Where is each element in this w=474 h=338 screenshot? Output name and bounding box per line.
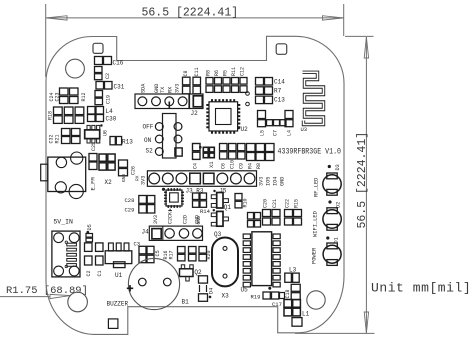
svg-text:C1: C1 bbox=[97, 270, 103, 276]
svg-text:C26: C26 bbox=[131, 166, 137, 175]
svg-text:C2: C2 bbox=[86, 270, 92, 276]
svg-text:C4: C4 bbox=[193, 163, 199, 169]
wire right dimension extension line top bbox=[345, 35, 374, 37]
mounting hole top-left bbox=[66, 59, 85, 78]
svg-text:C13: C13 bbox=[274, 97, 285, 104]
label Q3 bbox=[214, 231, 222, 238]
svg-text:B1: B1 bbox=[182, 299, 190, 306]
svg-text:D3: D3 bbox=[335, 164, 341, 170]
svg-text:GND: GND bbox=[195, 215, 201, 224]
svg-text:J4: J4 bbox=[142, 229, 150, 236]
svg-text:S2: S2 bbox=[146, 148, 154, 155]
via pair near U2 bbox=[246, 92, 250, 106]
crystal X1 bbox=[199, 146, 214, 158]
capacitor C32 resistor R21 cluster bbox=[49, 129, 81, 144]
right dimension text 56.5 [2224.41] bbox=[356, 132, 369, 229]
mounting hole bottom-left bbox=[68, 292, 88, 312]
svg-text:IO4: IO4 bbox=[273, 177, 279, 186]
svg-text:56.5 [2224.41]: 56.5 [2224.41] bbox=[356, 132, 369, 229]
connector J4 bbox=[142, 226, 203, 240]
svg-text:R19: R19 bbox=[251, 294, 261, 301]
svg-text:R8: R8 bbox=[206, 70, 212, 76]
top dimension arrow right bbox=[323, 16, 344, 20]
svg-text:D4: D4 bbox=[209, 288, 215, 294]
capacitor C2 C1 cluster bbox=[85, 243, 104, 277]
regulator U1 bbox=[105, 243, 132, 279]
svg-text:C2D: C2D bbox=[183, 215, 189, 224]
label J5 bbox=[219, 188, 227, 195]
capacitor C17 L1 cluster bbox=[272, 300, 310, 318]
svg-text:C31: C31 bbox=[114, 84, 125, 91]
board title text 4339RFBR3GE V1.0 bbox=[278, 147, 342, 156]
mounting hole bottom-right bbox=[307, 291, 325, 309]
svg-text:TX: TX bbox=[160, 86, 166, 93]
pad bottom-left bbox=[108, 319, 118, 329]
op-amp U6 bbox=[85, 124, 109, 151]
svg-text:L4: L4 bbox=[106, 108, 114, 115]
svg-text:L4: L4 bbox=[287, 130, 293, 136]
label J4 pin names bbox=[153, 212, 200, 224]
svg-text:X3: X3 bbox=[222, 293, 230, 300]
svg-text:U5: U5 bbox=[241, 287, 249, 294]
transistor Q1 bbox=[211, 190, 231, 211]
svg-text:C22: C22 bbox=[285, 199, 291, 208]
svg-text:ON: ON bbox=[144, 137, 152, 144]
fiducial square top-left bbox=[93, 43, 103, 53]
resistor J3 R3 pads bbox=[193, 193, 207, 207]
svg-text:RF_LED: RF_LED bbox=[314, 178, 320, 197]
capacitor C14 resistor R7 capacitor C13 bbox=[256, 78, 286, 104]
buzzer B1 bbox=[107, 258, 190, 309]
svg-text:RX: RX bbox=[167, 86, 173, 93]
svg-text:C5: C5 bbox=[155, 250, 161, 256]
svg-text:C25: C25 bbox=[91, 142, 97, 151]
svg-text:IO5: IO5 bbox=[266, 177, 272, 186]
connector J1 header bbox=[147, 171, 256, 187]
label J2 pin names bbox=[141, 83, 181, 93]
svg-text:Q1: Q1 bbox=[224, 204, 232, 211]
svg-text:C9: C9 bbox=[239, 163, 245, 169]
unit note text Unit mm[mil] bbox=[371, 281, 471, 296]
ic U2 bbox=[208, 100, 249, 133]
led D3 bbox=[323, 164, 341, 195]
svg-text:GND: GND bbox=[121, 173, 127, 182]
capacitor C18 bbox=[285, 284, 300, 299]
svg-text:C12: C12 bbox=[240, 67, 246, 76]
capacitor C3 bbox=[134, 241, 161, 263]
inductor L4 bbox=[88, 107, 114, 116]
connector J2 bbox=[135, 94, 203, 117]
svg-text:U2: U2 bbox=[241, 126, 249, 133]
capacitor C24 C23 cluster bbox=[49, 88, 87, 104]
resistor R14 bbox=[196, 208, 211, 225]
svg-text:C10: C10 bbox=[230, 160, 236, 169]
capacitor pads left of X2 bbox=[89, 154, 97, 170]
capacitor C4 pads bbox=[193, 144, 201, 160]
svg-text:Q3: Q3 bbox=[214, 231, 222, 238]
svg-text:C16: C16 bbox=[113, 60, 124, 67]
capacitor C27 column bbox=[248, 213, 261, 228]
svg-text:R4: R4 bbox=[248, 163, 254, 169]
label crystal caps row bbox=[193, 160, 263, 169]
svg-text:C14: C14 bbox=[274, 79, 285, 86]
top dimension arrow left bbox=[46, 16, 67, 20]
svg-text:R15: R15 bbox=[294, 199, 300, 208]
svg-text:OFF: OFF bbox=[143, 124, 154, 131]
svg-text:X1: X1 bbox=[208, 161, 215, 168]
svg-text:3V3: 3V3 bbox=[175, 84, 181, 93]
resistor R16 R17 cluster bbox=[163, 247, 212, 261]
svg-text:3V3: 3V3 bbox=[153, 215, 159, 224]
ic U5 bbox=[241, 232, 281, 294]
svg-text:GND: GND bbox=[154, 84, 160, 93]
svg-text:C29: C29 bbox=[125, 207, 135, 214]
led D2 bbox=[323, 200, 342, 230]
label POWER bbox=[312, 247, 318, 264]
radius leader arrow bbox=[50, 294, 70, 298]
resistor R10 bbox=[235, 194, 248, 208]
svg-text:U6: U6 bbox=[103, 130, 109, 136]
switch S2 bbox=[143, 114, 183, 159]
svg-text:C21: C21 bbox=[272, 199, 278, 208]
svg-text:C11: C11 bbox=[194, 67, 200, 76]
svg-text:R13: R13 bbox=[122, 139, 133, 146]
capacitor C30 bbox=[88, 115, 117, 123]
right dimension arrow up bbox=[364, 37, 368, 58]
svg-text:R21: R21 bbox=[55, 134, 61, 143]
capacitor C22 pads bbox=[95, 67, 112, 80]
connector E_FM jack bbox=[41, 152, 97, 199]
svg-text:R5: R5 bbox=[223, 70, 229, 76]
connector X2 bbox=[99, 154, 115, 186]
capacitor C26 bbox=[119, 160, 137, 182]
crystal X3 bbox=[212, 238, 238, 300]
svg-text:J2: J2 bbox=[191, 110, 199, 117]
capacitor C19 bbox=[95, 91, 112, 105]
svg-text:U3: U3 bbox=[301, 126, 308, 133]
capacitor row C6 C10 C9 R4 R8 cluster bbox=[220, 144, 275, 161]
svg-text:Q2: Q2 bbox=[194, 269, 202, 276]
svg-text:D5: D5 bbox=[87, 224, 93, 230]
svg-text:3V3: 3V3 bbox=[259, 177, 265, 186]
wire right dimension extension line bottom bbox=[295, 332, 375, 334]
svg-text:C20: C20 bbox=[263, 199, 269, 208]
label WIFI_LED bbox=[313, 211, 319, 237]
svg-text:C2: C2 bbox=[105, 73, 111, 79]
led D1 bbox=[323, 236, 341, 265]
svg-text:R8: R8 bbox=[256, 163, 262, 169]
svg-text:POWER: POWER bbox=[312, 247, 318, 264]
svg-text:WIFI_LED: WIFI_LED bbox=[313, 211, 319, 237]
svg-text:Unit mm[mil]: Unit mm[mil] bbox=[371, 281, 471, 296]
svg-text:C17: C17 bbox=[272, 301, 282, 308]
svg-text:C28: C28 bbox=[125, 197, 135, 204]
right dimension arrow down bbox=[364, 312, 368, 333]
label J1 left bbox=[135, 175, 147, 185]
wire top dimension line bbox=[46, 17, 344, 19]
label 5V_IN bbox=[53, 219, 73, 226]
svg-text:C19: C19 bbox=[106, 95, 112, 104]
capacitor C16 bbox=[95, 57, 124, 67]
ic U4 bbox=[162, 188, 183, 211]
svg-text:R11: R11 bbox=[231, 67, 237, 76]
wire top dimension extension line right bbox=[343, 4, 345, 36]
top dimension text 56.5 [2224.41] bbox=[142, 7, 239, 20]
connector USB bbox=[52, 231, 80, 277]
svg-text:E_FM: E_FM bbox=[90, 177, 97, 190]
svg-text:C7: C7 bbox=[273, 130, 279, 136]
fiducial square top-right bbox=[276, 44, 287, 55]
svg-text:C18: C18 bbox=[285, 289, 291, 298]
board outline bbox=[46, 36, 344, 334]
inductor L5 capacitor C7 cluster bbox=[258, 111, 294, 137]
svg-text:56.5 [2224.41]: 56.5 [2224.41] bbox=[142, 7, 239, 20]
svg-text:C2CK: C2CK bbox=[168, 212, 174, 224]
svg-text:X2: X2 bbox=[105, 179, 113, 186]
svg-text:L1: L1 bbox=[302, 311, 310, 318]
inductor L3 bbox=[285, 267, 299, 283]
resistor R13 bbox=[110, 137, 133, 146]
diode D5 bbox=[86, 224, 93, 242]
svg-text:U1: U1 bbox=[115, 272, 123, 279]
resistor R19 bbox=[251, 292, 285, 301]
capacitor C28 C29 bbox=[125, 196, 155, 214]
transistor Q2 bbox=[180, 265, 203, 281]
svg-text:R7: R7 bbox=[274, 88, 282, 95]
capacitor C20 C21 C22 R15 cluster bbox=[263, 199, 302, 225]
svg-text:L5: L5 bbox=[260, 130, 266, 136]
diode D4 bbox=[199, 276, 215, 302]
svg-text:4339RFBR3GE V1.0: 4339RFBR3GE V1.0 bbox=[278, 147, 342, 156]
inductor L1 pad bbox=[292, 318, 302, 327]
svg-text:R10: R10 bbox=[242, 198, 248, 207]
wire top dimension extension line left bbox=[45, 4, 47, 77]
label J3 R3 bbox=[186, 188, 204, 195]
svg-text:RX: RX bbox=[135, 175, 141, 181]
svg-text:GND: GND bbox=[280, 177, 286, 186]
svg-text:R17: R17 bbox=[169, 250, 175, 259]
capacitor C31 bbox=[96, 82, 125, 91]
svg-text:C30: C30 bbox=[106, 116, 117, 123]
svg-text:R6: R6 bbox=[214, 70, 220, 76]
radius callout text R1.75 [68.89] bbox=[6, 285, 88, 297]
wire right dimension line bbox=[365, 37, 367, 333]
svg-text:C6: C6 bbox=[221, 163, 227, 169]
label J1 right pins bbox=[259, 177, 286, 186]
antenna U3 bbox=[301, 72, 324, 133]
wire radius leader line bbox=[0, 296, 50, 298]
label RF_LED bbox=[314, 178, 320, 197]
svg-text:SDA: SDA bbox=[141, 83, 147, 93]
svg-text:D2: D2 bbox=[336, 202, 342, 208]
svg-text:5V_IN: 5V_IN bbox=[53, 219, 73, 226]
svg-text:C8: C8 bbox=[183, 70, 189, 76]
resistor row R8 R6 R5 R11 C12 bbox=[206, 67, 248, 92]
svg-text:R12: R12 bbox=[81, 92, 87, 101]
svg-text:R14: R14 bbox=[200, 208, 211, 215]
svg-text:3V3: 3V3 bbox=[141, 176, 147, 185]
capacitor C8 C11 cluster bbox=[183, 67, 201, 93]
svg-text:BUZZER: BUZZER bbox=[107, 301, 129, 308]
resistor R18 cluster bbox=[48, 107, 84, 123]
transistor Q2b bbox=[211, 209, 228, 226]
svg-text:R18: R18 bbox=[48, 111, 54, 120]
